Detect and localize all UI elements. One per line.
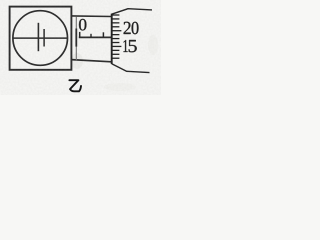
main scale tick half-mm (short) — [90, 34, 92, 38]
scan smudge bottom — [104, 83, 136, 91]
main scale tick 0 (tall) — [79, 32, 81, 38]
paper background — [0, 0, 161, 95]
thimble ticks — [113, 15, 122, 58]
main scale tick 1mm (tall) — [102, 32, 104, 37]
datum line — [79, 36, 112, 38]
sleeve bottom line — [72, 60, 112, 62]
thimble label 15 digit 5 — [129, 40, 137, 52]
thimble label 20 digit 0 — [132, 22, 139, 34]
thimble label 20 — [124, 22, 131, 34]
sleeve end cap line (dark middle) — [75, 29, 77, 47]
scan smudge left — [71, 53, 83, 69]
wire line right (short) — [43, 29, 45, 47]
sleeve end cap line (full, faint) — [75, 17, 77, 61]
dial circle — [13, 11, 68, 66]
wire line left (long) — [37, 23, 39, 51]
scan grain overlay — [0, 0, 161, 95]
thimble top profile — [112, 9, 152, 15]
specimen box frame — [10, 7, 72, 70]
thimble bottom profile — [112, 64, 150, 73]
thimble label 15 — [123, 40, 127, 52]
thimble edge line — [111, 14, 113, 64]
scan smudge right — [148, 35, 158, 55]
sleeve top line — [72, 15, 112, 18]
horizontal diameter line — [13, 37, 67, 39]
main scale label 0 — [79, 19, 86, 31]
figure label yi (CJK) — [69, 80, 81, 91]
